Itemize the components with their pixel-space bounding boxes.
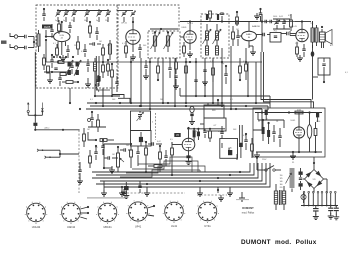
vertical drop x213 <box>212 58 214 104</box>
screen resistor R2 <box>77 36 80 55</box>
trimmer cap CT3 <box>72 11 77 17</box>
svg-text:5000: 5000 <box>273 16 277 18</box>
wire V2 anode <box>132 21 134 30</box>
mid rect block b <box>204 118 226 131</box>
pepper mid box A row3 <box>57 61 64 64</box>
box cluster cap c <box>272 125 275 142</box>
bridge leads <box>303 157 327 193</box>
tone switch arrow <box>274 20 280 25</box>
svg-text:UY41: UY41 <box>204 224 211 228</box>
top wire joining trimmers <box>57 9 109 11</box>
value label S1 #45 <box>292 162 294 164</box>
filament tap 4 <box>317 191 319 206</box>
mid resistor R13 <box>145 142 148 163</box>
audio pepper c <box>120 148 133 151</box>
selector diode a <box>299 168 303 177</box>
filament tap bus <box>301 205 338 207</box>
svg-text:UBC41: UBC41 <box>103 225 112 229</box>
IF transformer T2 dashed can <box>201 14 229 58</box>
value label 1M #9 <box>99 41 102 43</box>
IFT1 tuning arrow 2 <box>164 32 174 49</box>
AF pepper k <box>244 133 247 150</box>
filter resistor R19 <box>314 122 317 146</box>
faint note line <box>236 199 249 200</box>
mains transformer T4 secondary <box>282 191 285 204</box>
osc column part b <box>115 76 118 92</box>
bus corner below box A <box>96 86 110 90</box>
volume pot P1 <box>117 147 125 172</box>
box corner cap <box>42 8 45 21</box>
bus wire y96 <box>180 88 270 96</box>
label EABC80 <box>252 25 261 28</box>
svg-text:0,1: 0,1 <box>230 99 233 101</box>
box bottom gnd b <box>290 151 296 159</box>
vertical drop x163 <box>162 58 164 104</box>
svg-text:0,5: 0,5 <box>170 139 173 141</box>
ground below V3 <box>187 51 193 57</box>
svg-text:0,01: 0,01 <box>141 141 145 143</box>
value label 1K #42 <box>276 121 279 123</box>
wire caps to RF coil <box>28 37 35 48</box>
IF amp tube V2 UF41 <box>126 30 140 44</box>
output transformer T3 secondary <box>315 28 318 42</box>
trimmer cap CT6 <box>106 11 111 17</box>
wire V3 leads <box>180 22 190 51</box>
rail part b <box>217 13 224 23</box>
filament tap 3 <box>312 191 314 206</box>
gang label 2 <box>152 122 154 124</box>
bus ladder wire 1 <box>92 163 250 172</box>
wire mid left <box>88 132 97 141</box>
svg-text:A.P.: A.P. <box>330 44 334 47</box>
value label 50K #38 <box>233 129 237 131</box>
left margin tag <box>1 41 7 44</box>
ladder drop gnd 4 <box>101 181 107 196</box>
vertical drop x231 <box>230 46 232 110</box>
svg-text:UF41: UF41 <box>135 224 142 228</box>
screen bypass cap C4 <box>83 44 86 57</box>
value label 32 #40 <box>258 121 260 123</box>
bus ladder wire 3 <box>92 163 258 178</box>
ladder drop gnd 2 <box>144 187 150 196</box>
box to switch wire <box>257 157 258 170</box>
svg-text:0,1: 0,1 <box>122 43 125 45</box>
wire V4 leads <box>238 22 249 48</box>
OT secondary drop <box>311 45 315 100</box>
RF input coil L1 <box>37 30 40 52</box>
dashed bits left of sockets <box>121 189 185 195</box>
electrolytic can C18 <box>307 113 312 153</box>
svg-text:2a M.F.: 2a M.F. <box>187 23 194 25</box>
svg-text:0,1: 0,1 <box>90 99 93 101</box>
value label 300 #12 <box>143 45 146 47</box>
audio pepper a <box>94 145 97 160</box>
osc column part c <box>94 76 99 97</box>
speaker return L path <box>261 52 314 108</box>
svg-text:R225: R225 <box>44 25 51 29</box>
label R225 <box>42 25 53 29</box>
under IFT2 parts c <box>224 65 227 84</box>
trimmer arrow down with dot <box>35 103 43 116</box>
value label 0,01 #33 <box>141 141 145 143</box>
phono wires <box>46 150 79 157</box>
decoupling resistor R8 <box>290 14 293 31</box>
bridge diode BL <box>307 182 313 188</box>
svg-text:50p: 50p <box>84 20 87 22</box>
phono input arrow 2 <box>45 156 54 159</box>
AF wires m <box>222 143 237 160</box>
svg-text:P.U.: P.U. <box>274 31 278 33</box>
value label 5p #1 <box>63 20 65 22</box>
antenna input terminal A1 <box>10 33 18 38</box>
osc grid cap C5 <box>89 42 101 45</box>
value label 0,5 #35 <box>170 139 173 141</box>
caption small DUMONT <box>242 206 254 210</box>
svg-text:5p: 5p <box>63 20 65 22</box>
coupling cap C14 <box>148 142 162 145</box>
box top resistor 0,06 <box>295 110 303 114</box>
audio wires g <box>103 152 112 169</box>
svg-text:0,1: 0,1 <box>81 51 84 53</box>
svg-text:UL41: UL41 <box>171 224 178 228</box>
svg-text:5p: 5p <box>96 20 98 22</box>
ground below V4 <box>249 46 256 55</box>
ground below V5 <box>297 55 303 61</box>
dashed shield vertical <box>78 130 80 193</box>
svg-text:UF 41: UF 41 <box>121 23 127 25</box>
IF amp tube V3 UF41 <box>184 31 196 43</box>
value label 0,5 #20 <box>288 15 291 17</box>
svg-text:170: 170 <box>313 179 316 181</box>
output tube V7 <box>293 127 304 138</box>
svg-text:50p: 50p <box>221 63 224 65</box>
voltage selector text <box>280 175 283 189</box>
value label 25p #5 <box>105 20 108 22</box>
svg-text:0,3: 0,3 <box>218 131 221 133</box>
box dark cap right <box>316 113 319 122</box>
svg-text:mod. Pollux: mod. Pollux <box>242 212 255 215</box>
mid resistor R12 <box>130 144 133 163</box>
extra vertical x186 <box>185 58 188 104</box>
AF pepper l <box>251 138 254 158</box>
bridge label <box>313 179 316 181</box>
dashed top extension <box>118 5 179 31</box>
V5 grid wire <box>290 31 296 36</box>
label V7 <box>291 120 297 122</box>
value label 2a M.F. #14 <box>187 23 194 25</box>
svg-text:140: 140 <box>280 181 283 183</box>
value label 170 #21 <box>295 43 298 45</box>
vertical drop x222 <box>221 48 223 107</box>
pepper box A bottom3 <box>96 75 99 87</box>
value label 0,1 #39 <box>243 135 246 137</box>
under IFT2 parts b <box>212 58 215 82</box>
bus ladder wire 6 <box>104 163 270 187</box>
svg-text:UAF42: UAF42 <box>67 225 76 229</box>
wire box A bottom drop <box>69 88 71 104</box>
right column pair <box>240 125 243 143</box>
AF interstage box <box>270 31 281 43</box>
svg-text:0,1: 0,1 <box>345 72 348 74</box>
svg-text:0,5: 0,5 <box>95 147 98 149</box>
value label 50p #3 <box>84 20 87 22</box>
svg-text:300: 300 <box>143 45 146 47</box>
pepper mid box A row1 <box>43 54 46 70</box>
svg-text:110: 110 <box>280 175 283 177</box>
ladder dots <box>121 171 241 188</box>
value label 0,1 #8 <box>81 51 84 53</box>
value label 0,1 #36 <box>196 131 199 133</box>
svg-text:32: 32 <box>266 119 268 121</box>
value label 0,5 #18 <box>243 61 246 63</box>
AF cap C16 <box>220 126 223 139</box>
box inner top wire <box>255 111 322 113</box>
AVC bus wire y62 <box>46 61 262 63</box>
V6 wires <box>178 132 189 158</box>
svg-text:M.F.: M.F. <box>152 33 156 35</box>
label UF41 V3 <box>182 27 188 29</box>
vertical drop x205 <box>204 58 206 97</box>
AF wire loop <box>220 139 238 159</box>
trimmer cap CT1 <box>56 11 61 17</box>
value label 25K #7 <box>74 45 78 47</box>
V6 anode resistor <box>193 129 196 142</box>
mixer plate coil L3 <box>94 58 97 76</box>
value label 0,1 #24 <box>345 72 348 74</box>
audio pepper b <box>89 150 92 168</box>
V1 cathode resistor R1 <box>56 44 59 58</box>
value label 5000 #19 <box>273 16 277 18</box>
V6 top parts <box>203 129 211 142</box>
svg-text:1M: 1M <box>236 29 239 31</box>
osc coil L2 <box>109 40 112 60</box>
mains transformer T4 primary <box>274 191 277 204</box>
antenna input terminal A2 <box>10 44 18 49</box>
caption small mod Pollux <box>242 212 255 215</box>
value label 1200 #43 <box>316 121 320 123</box>
mid junctions <box>104 141 147 152</box>
cap gnd top V4 <box>254 8 262 22</box>
svg-text:0,1: 0,1 <box>210 61 213 63</box>
grid cap row V1 <box>50 24 53 38</box>
osc terminal circle <box>88 119 91 122</box>
IFT2 tuning arrow 2 <box>213 29 222 44</box>
socket S4 tails <box>148 205 155 216</box>
mains switch <box>258 166 281 172</box>
trimmer leads down <box>58 17 108 22</box>
speaker coil <box>320 32 326 42</box>
extra vertical x196 <box>194 58 197 97</box>
svg-text:S1: S1 <box>292 162 294 164</box>
dark cap bottom <box>123 182 129 199</box>
audio wire j <box>160 162 173 176</box>
ground near caption <box>239 192 245 201</box>
label UL41 <box>291 26 297 28</box>
svg-text:220: 220 <box>280 187 283 189</box>
value label 5p #4 <box>96 20 98 22</box>
bridge diode TL <box>306 172 312 178</box>
filament tap 6 <box>326 191 328 206</box>
mid block leads <box>189 99 219 125</box>
value label 10K #32 <box>126 145 130 147</box>
audio pepper e <box>164 150 167 166</box>
pepper mid box A row2 <box>50 54 53 68</box>
dashed RF-converter section box <box>36 5 118 88</box>
speaker cone <box>326 30 333 45</box>
wire under IFT1 b <box>168 58 171 78</box>
IFT1 trimmer dots <box>150 28 178 34</box>
filter caps grounds <box>328 213 340 220</box>
value label A.P. #23 <box>330 44 334 47</box>
trimmer grid dark b <box>68 70 79 75</box>
svg-text:0,06: 0,06 <box>297 110 301 112</box>
extra vertical x256 <box>255 62 257 104</box>
pepper mid box A row4 <box>86 59 89 72</box>
wire V1 cathode down <box>58 42 66 55</box>
filter cap C22b plates <box>334 206 339 215</box>
svg-text:UCH42: UCH42 <box>32 225 41 229</box>
wire under V2 a <box>143 60 149 79</box>
shield resistor R15 <box>83 128 86 147</box>
output transformer T3 primary <box>311 28 314 42</box>
svg-text:DUMONT: DUMONT <box>242 206 254 210</box>
value label 0,1 #15 <box>210 61 213 63</box>
box cluster wires <box>258 113 284 129</box>
antenna coupling cap C2 <box>25 46 27 49</box>
filament tap 1 <box>303 191 305 206</box>
V6 anode cap <box>197 129 200 140</box>
tube socket S2 <box>60 202 83 229</box>
svg-text:1M: 1M <box>87 129 90 131</box>
IFT1 secondary coil <box>166 31 169 52</box>
T3 leads <box>313 21 317 48</box>
trimmer cap CT2 <box>64 11 69 17</box>
filter cap C21 plates <box>313 206 319 216</box>
right column dark cap <box>239 143 243 158</box>
svg-text:25p: 25p <box>71 20 74 22</box>
wire V1 grid <box>45 30 54 38</box>
wire padders <box>117 11 133 23</box>
selector contact strip <box>290 169 295 193</box>
svg-text:170: 170 <box>295 43 298 45</box>
wire antenna to coupling caps <box>18 37 24 48</box>
value label 1M #29 <box>87 129 90 131</box>
box bottom bus <box>256 146 322 153</box>
box cluster res a <box>262 120 265 141</box>
svg-text:160: 160 <box>280 184 283 186</box>
svg-text:220 v.: 220 v. <box>44 128 50 130</box>
V3 bias resistor R5 <box>183 42 186 57</box>
value label 220V #44 <box>262 159 267 161</box>
rail part a <box>206 11 212 22</box>
extra vertical x248 <box>247 62 249 97</box>
label tag V6 <box>174 133 180 137</box>
pepper parts below box A <box>44 62 74 83</box>
svg-text:M.F.: M.F. <box>212 110 216 112</box>
step wire c <box>132 161 198 172</box>
bus wire y109 <box>86 108 262 110</box>
padder cap CT8 <box>131 11 136 17</box>
wire y20 V4 to V5 <box>256 20 302 22</box>
T4 core <box>280 190 282 205</box>
feedback box <box>313 58 330 83</box>
padder cap CT7 <box>122 11 127 17</box>
trimmer cap CT5 <box>97 11 102 17</box>
selector cap b <box>299 178 302 183</box>
V5 cathode cap C9 <box>302 44 305 57</box>
step wire b <box>126 166 205 173</box>
ladder drop 4 <box>217 187 219 193</box>
bus ladder wire 2 <box>96 163 254 175</box>
svg-text:5p: 5p <box>55 20 57 22</box>
svg-text:UL 41: UL 41 <box>291 26 297 28</box>
vertical drop x262 <box>261 14 263 52</box>
mid rect block a <box>204 105 224 118</box>
bus wire y103 <box>87 102 270 104</box>
svg-text:DUMONT mod. Pollux: DUMONT mod. Pollux <box>241 239 317 246</box>
osc column part a <box>111 63 114 84</box>
box A right verticals <box>96 56 104 86</box>
gang dashed link <box>155 113 157 140</box>
ground below V1 <box>60 55 66 61</box>
filter cap C21 ground <box>313 214 319 220</box>
mid resistor R14 <box>148 165 170 168</box>
ladder drop gnd 5 <box>227 187 233 196</box>
pepper box A bottom4 <box>85 78 91 87</box>
trimmer arrow up with circle <box>27 103 36 117</box>
step wire a <box>120 170 200 177</box>
ground below V2 <box>130 54 136 60</box>
svg-text:0,01: 0,01 <box>279 16 283 18</box>
bus right link <box>253 96 270 130</box>
IFT2 tuning arrow 1 <box>203 29 212 44</box>
coupling cap V5 side <box>281 32 296 35</box>
bus step corner b <box>112 95 124 99</box>
audio wire i <box>131 162 147 173</box>
step wire d <box>138 157 192 172</box>
label UF41 V2 <box>121 23 127 25</box>
T4 leads <box>276 184 284 210</box>
trimmer grid dark a <box>68 62 79 67</box>
svg-text:0,5: 0,5 <box>288 15 291 17</box>
value label 0,3 #37 <box>218 131 221 133</box>
vertical drop x150 <box>149 58 151 110</box>
svg-text:~: ~ <box>255 176 257 180</box>
V6 cathode ground <box>186 155 192 164</box>
svg-text:1M: 1M <box>99 41 102 43</box>
tiny note above sockets <box>87 197 125 198</box>
tube socket S3 <box>96 202 119 229</box>
AF loop dark cap <box>228 148 232 156</box>
value label 0,1 #11 <box>122 43 125 45</box>
selector wiper arrow <box>286 173 292 184</box>
det load resistor <box>245 48 248 80</box>
value label 0,5 #30 <box>95 147 98 149</box>
svg-text:32: 32 <box>258 121 260 123</box>
filter cap C22a plates <box>328 206 333 215</box>
box cluster res b <box>267 123 270 144</box>
output tube V5 UL41 <box>296 29 308 41</box>
series caps y20 <box>265 20 272 23</box>
filament tap 2 <box>308 191 310 206</box>
tuning gang box lower <box>131 131 152 147</box>
detector resistor R6 <box>232 26 235 46</box>
svg-text:0,1: 0,1 <box>53 43 56 45</box>
bus wire y106 <box>90 105 268 107</box>
series dark cap on ground line <box>33 123 37 130</box>
trimmer grid arrows <box>66 60 81 76</box>
svg-text:25p: 25p <box>105 20 108 22</box>
